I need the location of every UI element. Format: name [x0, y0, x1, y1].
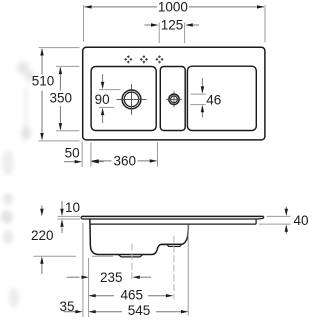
right tip closure [256, 216, 264, 224]
rim left end cap [80, 216, 83, 219]
middle small bowl [160, 67, 185, 131]
svg-text:10: 10 [65, 200, 80, 215]
dim 90 (big drain) [95, 74, 121, 123]
svg-text:40: 40 [293, 213, 308, 228]
dim 350 [50, 66, 80, 130]
tap hole symbol 3 [155, 55, 163, 63]
ext line left 1 (rim end) [82, 223, 84, 318]
svg-text:1000: 1000 [158, 0, 188, 14]
small drain crosshair [166, 91, 182, 107]
svg-text:125: 125 [161, 17, 184, 32]
big drain circles [122, 90, 141, 109]
svg-text:50: 50 [65, 146, 80, 161]
centerline big drain [131, 244, 133, 282]
ext line right (545) [187, 225, 189, 316]
drain inset under plateau [167, 245, 181, 247]
svg-text:235: 235 [100, 270, 123, 285]
apron bottom edge line [90, 223, 256, 225]
dim 46 (small drain) [190, 78, 221, 118]
under-rim line [82, 218, 256, 220]
svg-text:510: 510 [32, 74, 55, 89]
drainer area [187, 66, 256, 130]
svg-text:220: 220 [31, 228, 54, 243]
svg-text:350: 350 [50, 91, 73, 106]
dim 545 (to drainer start) [88, 303, 188, 318]
tap hole symbol 2 [140, 55, 148, 63]
dim 125 [145, 17, 200, 43]
dim 10 (rim thickness) [58, 200, 81, 233]
dim 235 (to big drain) [67, 270, 152, 285]
svg-text:465: 465 [121, 288, 144, 303]
small bowl plateau line [161, 243, 182, 245]
drain tray under bowl bottom [119, 255, 143, 257]
dim 35 (rim overhang) [59, 299, 82, 314]
sink outer rim rect [83, 47, 265, 140]
dim 1000 [84, 0, 266, 43]
dim 360 (bowl width) [91, 142, 158, 168]
small drain circles [169, 94, 179, 104]
watermark smudges left column [1, 61, 35, 308]
main bowl [91, 67, 156, 131]
svg-text:35: 35 [59, 299, 74, 314]
dim 465 (to small drain) [88, 288, 173, 303]
big drain crosshair [117, 84, 147, 115]
profile top surface line [82, 215, 264, 217]
ext line left 2 (bowl wall) [88, 258, 90, 317]
svg-text:90: 90 [95, 92, 110, 107]
dim 50 (bottom left rim) [64, 142, 104, 167]
dim 220 (bowl depth) [31, 206, 113, 275]
centerline small drain / 465 ext [173, 236, 175, 299]
svg-text:545: 545 [128, 303, 151, 318]
tap hole symbol 1 [124, 55, 132, 63]
svg-text:46: 46 [206, 92, 221, 107]
big bowl outline [90, 219, 189, 255]
svg-text:360: 360 [114, 153, 137, 168]
dim 40 (right edge height) [259, 207, 309, 235]
dim 510 [32, 48, 80, 141]
